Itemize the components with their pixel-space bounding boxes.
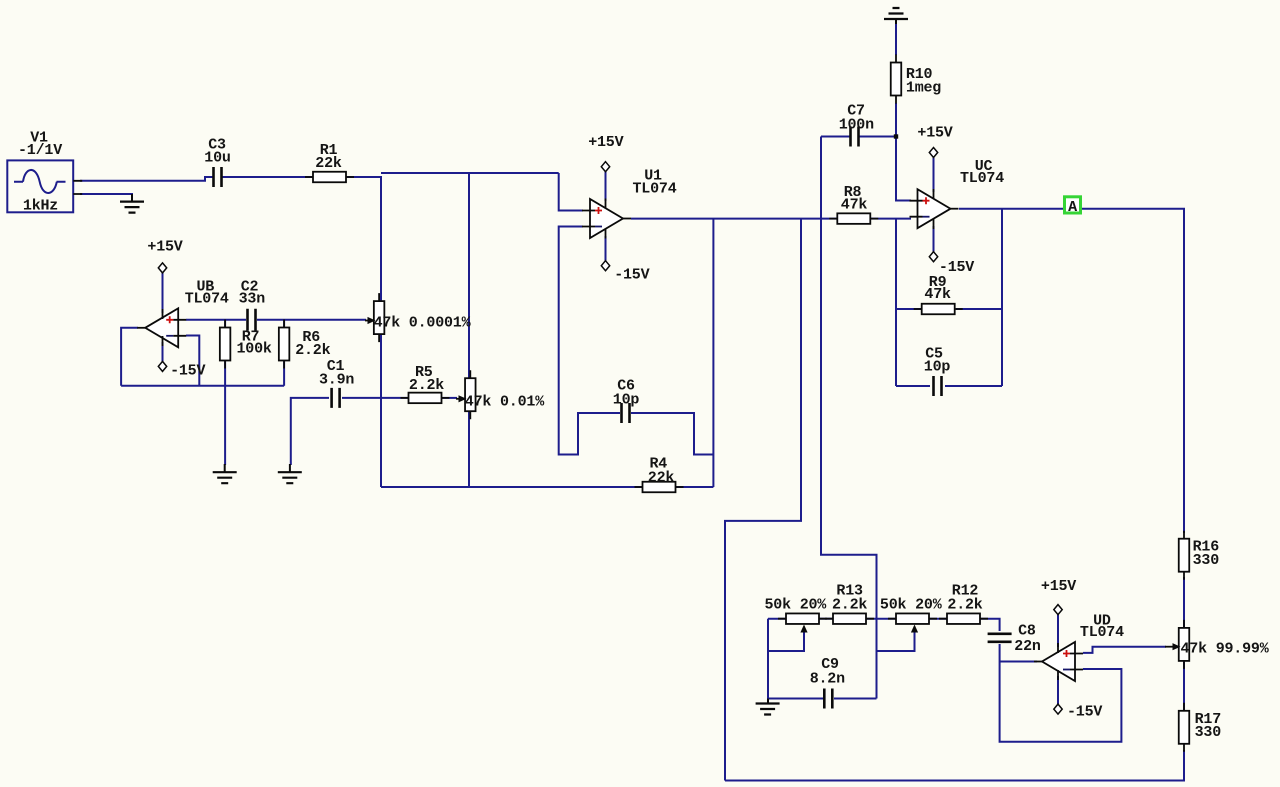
svg-text:2.2k: 2.2k <box>295 342 330 359</box>
wire bottom rail <box>725 750 1184 781</box>
svg-text:-15V: -15V <box>614 267 649 284</box>
svg-text:47k: 47k <box>924 286 951 303</box>
resistor R5 <box>401 393 450 404</box>
capacitor C9 <box>823 689 833 709</box>
U1 -15V power wire <box>605 236 607 261</box>
ground for C9 <box>767 699 769 704</box>
wire UB feedback bottom <box>121 385 284 387</box>
svg-text:+15V: +15V <box>147 239 182 256</box>
UC +15V power wire <box>933 157 935 192</box>
svg-text:50k 20%: 50k 20% <box>765 596 828 613</box>
wire R6 bottom <box>283 358 285 386</box>
svg-text:-15V: -15V <box>1067 704 1102 721</box>
resistor R9 <box>914 304 963 315</box>
UC -15V power wire <box>933 226 935 252</box>
capacitor C2 <box>247 309 257 331</box>
svg-text:1meg: 1meg <box>906 80 941 97</box>
svg-text:C8: C8 <box>1018 622 1036 639</box>
wire bottom horizontal y=487 <box>381 486 713 488</box>
wire R9/C5 left vertical <box>895 219 897 386</box>
svg-text:47k 0.01%: 47k 0.01% <box>465 393 545 410</box>
wire V1 ground lead <box>80 194 132 196</box>
wire R9 leads <box>896 308 921 310</box>
wire R10 to junction and UC + input <box>895 22 897 55</box>
capacitor C5 <box>933 376 943 396</box>
ground under C1 <box>278 472 302 483</box>
resistor R12 <box>939 613 988 624</box>
resistor R8 <box>829 213 878 224</box>
wire C7 capacitor leads <box>821 136 850 138</box>
wire R7 top tap <box>224 320 226 330</box>
wire C9 leads <box>768 698 823 700</box>
wire R5 to pot2 wiper <box>441 397 457 399</box>
svg-text:100n: 100n <box>839 117 874 134</box>
svg-text:10p: 10p <box>924 359 951 376</box>
UD -15V power wire <box>1057 676 1059 705</box>
wire UB + input to pot1 wiper <box>186 319 246 321</box>
svg-text:3.9n: 3.9n <box>319 371 354 388</box>
junction C7/R10 <box>894 134 898 138</box>
op-amp UD <box>1034 642 1083 681</box>
UD -15V terminal <box>1054 704 1062 714</box>
wire R13 network row <box>768 618 787 620</box>
op-amp UC <box>910 189 959 228</box>
svg-text:100k: 100k <box>236 341 271 358</box>
svg-text:A: A <box>1068 199 1077 216</box>
svg-text:22k: 22k <box>315 155 342 172</box>
svg-text:330: 330 <box>1195 724 1222 741</box>
svg-text:10u: 10u <box>204 149 230 166</box>
wire R7 bottom to ground <box>224 358 226 465</box>
wire R4 feedback vertical <box>712 219 714 487</box>
svg-text:+15V: +15V <box>588 134 623 151</box>
UD +15V terminal <box>1054 605 1062 615</box>
UB -15V power wire <box>162 342 164 362</box>
op-amp UB <box>137 308 186 347</box>
wire C1 left with ground drop <box>291 398 329 465</box>
U1 -15V terminal <box>601 261 609 271</box>
svg-text:47k: 47k <box>841 196 868 213</box>
UD +15V power wire <box>1057 614 1059 647</box>
resistor R4 <box>635 482 684 493</box>
UB +15V power wire <box>162 273 164 314</box>
wire pot3 left vertical to C9 <box>767 619 769 699</box>
potentiometer 47k 0.0001% <box>374 293 385 342</box>
svg-text:2.2k: 2.2k <box>409 377 444 394</box>
wire vertical bus x=469 <box>468 173 470 487</box>
capacitor C7 <box>850 127 860 147</box>
UB +15V terminal <box>158 263 166 273</box>
voltage source V1 <box>7 160 82 212</box>
wire C5 leads <box>896 385 930 387</box>
wire R16 to pot5 <box>1183 577 1185 630</box>
svg-text:47k 99.99%: 47k 99.99% <box>1181 640 1270 657</box>
wire UB output loop left side <box>121 328 138 386</box>
wiper arrow pot1 <box>365 317 376 324</box>
potentiometer 50k 20% right <box>888 613 937 624</box>
wire UD + input to pot5 wiper <box>1083 647 1166 653</box>
wire UC output to node A and right bus down to R16 <box>959 209 1184 533</box>
wire V1 output to C3 <box>80 177 214 181</box>
resistor R13 <box>825 613 874 624</box>
capacitor C3 <box>213 167 223 187</box>
svg-text:-15V: -15V <box>170 362 205 379</box>
svg-text:2.2k: 2.2k <box>947 596 982 613</box>
wiper arrow pot3 <box>800 625 807 633</box>
svg-text:+15V: +15V <box>917 125 952 142</box>
UC -15V terminal <box>929 252 937 262</box>
svg-text:TL074: TL074 <box>960 170 1004 187</box>
svg-text:330: 330 <box>1193 552 1220 569</box>
wire UB - input loop <box>186 336 199 386</box>
svg-text:8.2n: 8.2n <box>810 670 845 687</box>
wire pot3 wiper tap <box>768 630 804 651</box>
wiper arrow pot4 <box>911 625 918 633</box>
wire U1 output line to R8 and UC - input <box>631 218 838 220</box>
svg-text:+15V: +15V <box>1041 578 1076 595</box>
capacitor C1 <box>331 388 341 408</box>
op-amp U1 <box>582 199 631 238</box>
capacitor C8 <box>988 633 1012 643</box>
UC +15V terminal <box>929 148 937 158</box>
resistor R17 <box>1179 703 1190 752</box>
resistor R7 <box>220 320 231 369</box>
ground above R10 <box>884 8 908 19</box>
U1 +15V power wire <box>605 171 607 201</box>
capacitor C6 <box>621 403 631 423</box>
svg-text:TL074: TL074 <box>1080 624 1124 641</box>
UB -15V terminal <box>158 361 166 371</box>
ground for V1 <box>131 194 133 202</box>
U1 +15V terminal <box>601 162 609 172</box>
svg-text:TL074: TL074 <box>632 181 676 198</box>
wire R1 to corner, vertical bus x=381 <box>346 177 381 487</box>
svg-text:10p: 10p <box>613 392 640 409</box>
svg-text:50k 20%: 50k 20% <box>880 596 943 613</box>
resistor R10 <box>891 55 902 104</box>
svg-text:TL074: TL074 <box>185 291 229 308</box>
svg-text:1kHz: 1kHz <box>23 198 58 215</box>
wire into U1 + input <box>559 173 583 211</box>
potentiometer 47k 99.99% <box>1179 620 1190 669</box>
wire C8 bottom to UD output node and feedback rail <box>1000 644 1122 742</box>
node A box <box>1065 197 1081 213</box>
svg-text:22n: 22n <box>1014 638 1041 655</box>
wire C7 branch vertical x=821 down to R13 network <box>821 137 877 699</box>
wire top horizontal to U1 + branch <box>381 172 559 174</box>
wire R6 top tap <box>283 320 285 330</box>
potentiometer 47k 0.01% <box>465 370 476 419</box>
wire pot4 wiper tap <box>877 630 915 651</box>
wire UD output <box>1000 661 1037 663</box>
svg-text:47k 0.0001%: 47k 0.0001% <box>374 315 472 332</box>
wire U1 - feedback down to C6/R4 <box>559 227 620 455</box>
wire C6 right to R4 vertical <box>631 413 713 455</box>
wire C1 to R5 <box>342 397 409 399</box>
wire C3 to R1 <box>221 176 313 178</box>
wire R9/C5 right vertical <box>1001 209 1003 386</box>
resistor R6 <box>279 320 290 369</box>
svg-text:33n: 33n <box>239 291 266 308</box>
wiper arrow pot5 <box>1165 643 1181 650</box>
resistor R16 <box>1179 531 1190 580</box>
svg-text:2.2k: 2.2k <box>832 596 867 613</box>
wiper arrow pot2 <box>456 395 467 402</box>
svg-text:-1/1V: -1/1V <box>18 142 62 159</box>
wire pot5 to R17 <box>1183 659 1185 713</box>
svg-text:22k: 22k <box>648 469 675 486</box>
potentiometer 50k 20% left <box>778 613 827 624</box>
wire node drop x=801 to bottom rail <box>725 219 801 781</box>
ground under R7 <box>213 472 237 483</box>
resistor R1 <box>305 172 354 183</box>
